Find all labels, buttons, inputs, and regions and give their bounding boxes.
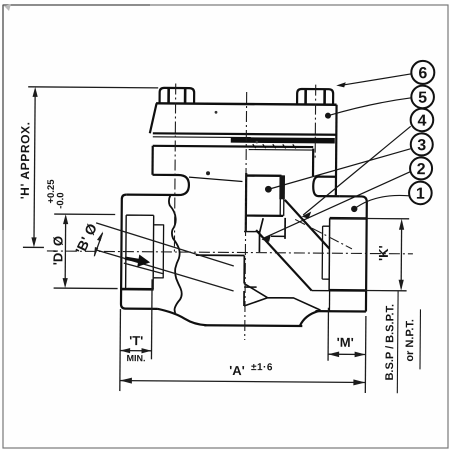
svg-text:±1·6: ±1·6 xyxy=(251,362,273,373)
svg-text:6: 6 xyxy=(418,65,427,82)
svg-text:2: 2 xyxy=(417,161,426,178)
svg-text:-0.0: -0.0 xyxy=(55,192,66,208)
svg-text:'M': 'M' xyxy=(337,335,354,350)
svg-text:1: 1 xyxy=(416,186,425,203)
svg-text:3: 3 xyxy=(417,137,426,154)
svg-text:MIN.: MIN. xyxy=(127,353,146,363)
svg-text:'K': 'K' xyxy=(376,245,391,261)
svg-text:or N.P.T.: or N.P.T. xyxy=(404,319,416,362)
svg-text:4: 4 xyxy=(417,113,426,130)
svg-text:'A': 'A' xyxy=(229,363,245,378)
svg-text:B.S.P / B.S.P.T.: B.S.P / B.S.P.T. xyxy=(384,304,397,381)
svg-text:'H' APPROX.: 'H' APPROX. xyxy=(18,121,33,199)
svg-text:'T': 'T' xyxy=(129,333,143,348)
svg-text:5: 5 xyxy=(418,90,427,107)
svg-text:'D' Ø: 'D' Ø xyxy=(50,236,65,265)
